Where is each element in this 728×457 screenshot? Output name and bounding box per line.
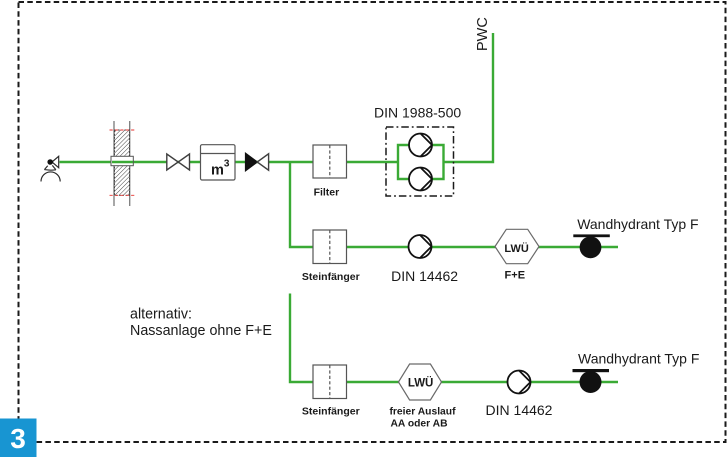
svg-text:PWC: PWC <box>475 17 491 51</box>
svg-text:3: 3 <box>10 423 26 454</box>
pump P2 <box>409 168 432 191</box>
figure number badge <box>0 419 37 457</box>
wire alternative circuit pipe <box>290 294 618 383</box>
LWU separator bottom row <box>390 364 457 430</box>
svg-text:freier Auslauf: freier Auslauf <box>390 407 457 418</box>
svg-text:Wandhydrant Typ F: Wandhydrant Typ F <box>577 216 698 232</box>
wall with pipe sleeve <box>110 121 135 206</box>
wire riser to PWC <box>444 33 494 162</box>
svg-text:Filter: Filter <box>314 187 340 199</box>
svg-text:LWÜ: LWÜ <box>408 376 434 389</box>
svg-text:AA oder AB: AA oder AB <box>390 419 447 430</box>
wire branch down from node A to middle row <box>290 162 618 247</box>
svg-text:alternativ:: alternativ: <box>130 307 192 323</box>
wire pump parallel loop <box>398 145 444 179</box>
svg-text:F+E: F+E <box>505 270 525 282</box>
check valve <box>246 153 269 170</box>
svg-text:LWÜ: LWÜ <box>504 242 528 255</box>
stone trap middle row <box>302 230 360 283</box>
wall hydrant bottom row <box>573 351 700 394</box>
LWU separator middle row <box>495 229 539 281</box>
svg-text:DIN 14462: DIN 14462 <box>486 402 553 418</box>
svg-text:Steinfänger: Steinfänger <box>302 406 360 418</box>
pump DIN 14462 bottom row <box>508 371 531 394</box>
shut-off valve <box>167 154 190 170</box>
svg-text:Wandhydrant Typ F: Wandhydrant Typ F <box>578 351 699 367</box>
DIN 1988-500 dash-dot enclosure <box>386 127 454 196</box>
pump DIN 14462 middle row <box>409 235 432 258</box>
water meter m3 <box>201 145 236 180</box>
stone trap bottom row <box>302 365 360 418</box>
wall hydrant middle row <box>573 216 698 258</box>
pump P1 <box>409 134 432 157</box>
svg-text:Steinfänger: Steinfänger <box>302 271 360 283</box>
wire main supply pipe <box>60 161 399 163</box>
svg-text:DIN 1988-500: DIN 1988-500 <box>374 104 461 120</box>
water supply inlet symbol <box>41 156 60 181</box>
svg-text:DIN 14462: DIN 14462 <box>391 268 458 284</box>
filter <box>313 145 347 199</box>
svg-text:Nassanlage ohne F+E: Nassanlage ohne F+E <box>130 323 272 339</box>
